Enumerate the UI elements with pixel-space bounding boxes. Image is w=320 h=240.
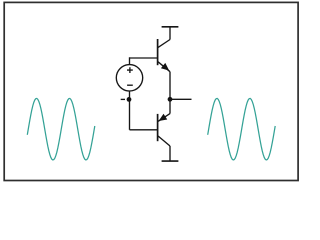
transistor Q2 (PNP) emitter diagonal bbox=[158, 114, 170, 122]
transistor Q2 collector diagonal bbox=[158, 136, 170, 146]
transistor Q2 base bar bbox=[157, 114, 159, 141]
right sine wave (output signal) bbox=[208, 98, 276, 160]
wire: output stub bbox=[170, 98, 192, 100]
transistor Q1 emitter diagonal bbox=[158, 62, 170, 72]
ground bar bbox=[162, 160, 179, 162]
wire: supply to Q1 collector bbox=[169, 27, 171, 40]
V1 minus sign bbox=[127, 84, 133, 86]
VCC supply bar bbox=[162, 26, 179, 28]
wire: input node down to Q2 base bbox=[129, 99, 131, 129]
left sine wave (input signal) bbox=[27, 98, 95, 160]
Q2 emitter arrowhead bbox=[159, 114, 166, 120]
wire: Q1 base bbox=[130, 57, 158, 59]
transistor Q1 base bar bbox=[157, 39, 159, 65]
input node junction dot bbox=[127, 97, 132, 102]
wire: Q1 emitter down to output node bbox=[169, 72, 171, 114]
wire: V1 bottom to input node bbox=[129, 91, 131, 99]
output node junction dot bbox=[168, 97, 173, 102]
wire: Q2 collector down to ground bbox=[169, 146, 171, 161]
V1 plus sign bbox=[127, 67, 133, 73]
wire: V1 top to Q1 base bbox=[129, 57, 131, 64]
voltage source V1 circle bbox=[116, 65, 142, 91]
border frame bbox=[4, 2, 298, 180]
Q1 emitter arrowhead bbox=[162, 64, 169, 71]
wire: Q2 base bbox=[130, 129, 158, 131]
minus polarity dash at input node bbox=[121, 98, 125, 100]
transistor Q1 (NPN) collector diagonal bbox=[158, 40, 170, 48]
